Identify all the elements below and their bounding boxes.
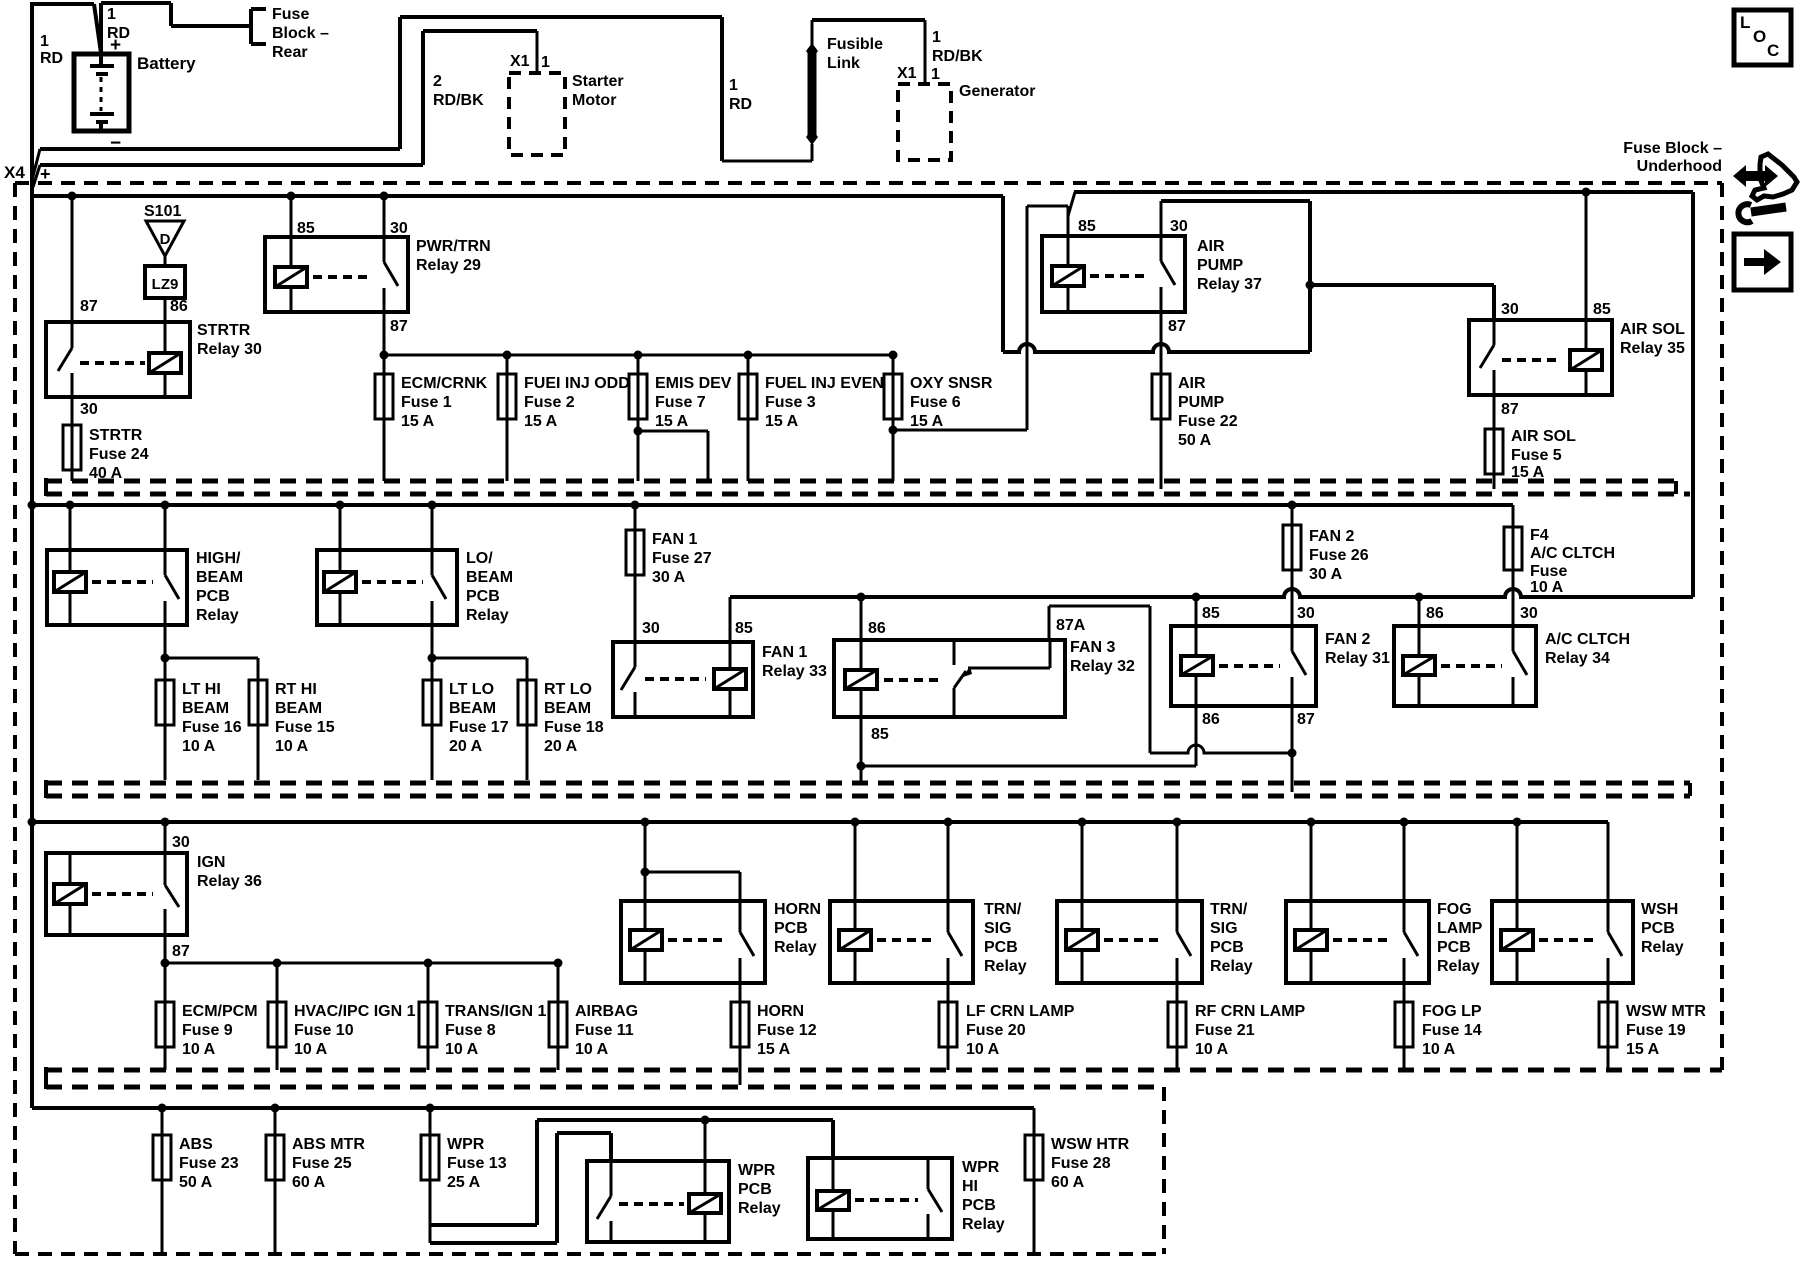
svg-text:87: 87 [1168,318,1186,335]
node row1 fuse bus junctions [380,351,898,360]
svg-text:D: D [160,231,171,248]
relay FAN 1 Relay 33 [613,597,827,717]
wire fusible link to generator [812,20,925,84]
wire relay37 to relay35 [1306,281,1495,321]
svg-text:Fuse 2: Fuse 2 [524,394,575,411]
svg-text:Fuse 22: Fuse 22 [1178,413,1238,430]
fuse WPR Fuse 13 [421,1108,507,1243]
svg-text:F4: F4 [1530,527,1549,544]
wire FAN3 87A to FAN2 87 [1049,606,1297,758]
fuse STRTR Fuse 24 [63,397,149,482]
svg-text:Fuse 6: Fuse 6 [910,394,961,411]
wire high beam relay output [161,625,259,680]
svg-text:Relay: Relay [1210,958,1253,975]
svg-text:RD/BK: RD/BK [433,92,484,109]
svg-text:85: 85 [297,220,315,237]
svg-text:30 A: 30 A [1309,566,1343,583]
svg-text:FOG: FOG [1437,901,1472,918]
wire WPR fuse to relays upper [430,1116,833,1226]
svg-text:LO/: LO/ [466,550,493,567]
svg-text:86: 86 [1202,711,1220,728]
svg-text:Relay 32: Relay 32 [1070,658,1135,675]
svg-text:50 A: 50 A [1178,432,1212,449]
svg-text:Relay 29: Relay 29 [416,257,481,274]
node bus row3 junctions [28,818,1522,827]
svg-text:PCB: PCB [466,588,500,605]
node X4 crow foot [4,149,51,187]
fuse ECM/PCM Fuse 9 [156,1002,258,1070]
svg-text:FAN 2: FAN 2 [1309,528,1354,545]
fuse ABS MTR Fuse 25 [266,1108,365,1254]
svg-text:WSW MTR: WSW MTR [1626,1003,1706,1020]
relay AIR PUMP Relay 37 [1042,192,1262,374]
svg-text:10 A: 10 A [182,1041,216,1058]
svg-text:Link: Link [827,55,860,72]
fuse LT LO BEAM Fuse 17 [423,680,509,780]
svg-text:ABS MTR: ABS MTR [292,1136,365,1153]
wire battery positive to left bus [30,4,101,53]
fuse ECM/CRNK Fuse 1 [375,374,488,481]
svg-text:HIGH/: HIGH/ [196,550,241,567]
svg-text:Relay: Relay [962,1216,1005,1233]
svg-text:60 A: 60 A [1051,1174,1085,1191]
svg-text:HORN: HORN [757,1003,804,1020]
svg-text:60 A: 60 A [292,1174,326,1191]
svg-text:30: 30 [1501,301,1519,318]
relay STRTR Relay 30 [46,196,262,418]
svg-text:RF CRN LAMP: RF CRN LAMP [1195,1003,1306,1020]
node bus row4 junctions [158,1104,435,1113]
wire bus row1 [32,194,1003,198]
fuse FAN 2 Fuse 26 [1283,505,1369,626]
svg-text:Fuse 13: Fuse 13 [447,1155,507,1172]
svg-text:Fuse 17: Fuse 17 [449,719,509,736]
svg-text:86: 86 [1426,605,1444,622]
svg-text:1: 1 [729,77,738,94]
svg-text:87: 87 [80,298,98,315]
label 2 RD/BK [433,73,484,109]
svg-text:Fuse: Fuse [272,6,309,23]
svg-text:86: 86 [170,298,188,315]
svg-text:LT HI: LT HI [182,681,221,698]
svg-text:10 A: 10 A [1195,1041,1229,1058]
svg-text:Fuse 15: Fuse 15 [275,719,335,736]
svg-text:10 A: 10 A [182,738,216,755]
svg-text:1: 1 [932,29,941,46]
relay FOG LAMP PCB Relay [1286,822,1483,1002]
svg-text:Fusible: Fusible [827,36,883,53]
svg-text:10 A: 10 A [1530,579,1564,596]
svg-text:FOG LP: FOG LP [1422,1003,1482,1020]
wire IGN output bus [161,959,563,968]
svg-text:OXY SNSR: OXY SNSR [910,375,993,392]
svg-text:HORN: HORN [774,901,821,918]
svg-text:PCB: PCB [962,1197,996,1214]
svg-text:Block –: Block – [272,25,329,42]
svg-text:1: 1 [931,66,940,83]
svg-text:87: 87 [1501,401,1519,418]
svg-text:Generator: Generator [959,83,1035,100]
wire B to starter motor [40,31,537,165]
svg-text:A/C CLTCH: A/C CLTCH [1530,545,1615,562]
svg-text:AIR: AIR [1197,238,1225,255]
svg-text:10 A: 10 A [1422,1041,1456,1058]
fuse FUEI INJ ODD Fuse 2 [498,355,630,481]
svg-text:Fuse 11: Fuse 11 [575,1022,634,1039]
svg-text:1: 1 [107,6,116,23]
svg-text:IGN: IGN [197,854,225,871]
svg-text:ECM/PCM: ECM/PCM [182,1003,258,1020]
svg-text:Relay: Relay [196,607,239,624]
svg-text:87: 87 [1297,711,1315,728]
svg-text:Underhood: Underhood [1637,158,1722,175]
svg-text:FUEL INJ EVEN: FUEL INJ EVEN [765,375,884,392]
relay WPR PCB Relay [587,1120,781,1242]
fuse AIR PUMP Fuse 22 [1152,374,1238,489]
wire row2 relay feed line [730,589,1693,602]
svg-text:HI: HI [962,1178,978,1195]
svg-text:Fuse 20: Fuse 20 [966,1022,1026,1039]
svg-text:WSW HTR: WSW HTR [1051,1136,1130,1153]
svg-text:TRN/: TRN/ [1210,901,1248,918]
svg-text:RD/BK: RD/BK [932,48,983,65]
wire OXY SNSR to relay 37 coil [889,206,1069,435]
svg-text:85: 85 [1078,218,1096,235]
svg-text:RT HI: RT HI [275,681,317,698]
svg-text:RD: RD [107,25,130,42]
svg-text:Fuse 23: Fuse 23 [179,1155,239,1172]
relay HIGH/BEAM PCB Relay [47,505,243,625]
svg-text:RD: RD [40,50,63,67]
svg-text:Fuse 19: Fuse 19 [1626,1022,1686,1039]
svg-text:Fuse 25: Fuse 25 [292,1155,352,1172]
fuse EMIS DEV Fuse 7 [629,355,732,481]
svg-text:BEAM: BEAM [196,569,243,586]
svg-text:30: 30 [642,620,660,637]
relay IGN Relay 36 [46,822,262,1002]
svg-text:85: 85 [1202,605,1220,622]
node bus row2 junctions [28,501,1297,510]
svg-text:FAN 1: FAN 1 [762,644,807,661]
svg-text:Fuse 12: Fuse 12 [757,1022,817,1039]
inner dashed separators [46,481,1722,1087]
fuse F4 A/C CLTCH Fuse [1504,505,1615,626]
svg-text:Relay 35: Relay 35 [1620,340,1685,357]
wire left main vertical [30,4,34,1108]
relay AIR SOL Relay 35 [1469,192,1685,429]
svg-text:30: 30 [1520,605,1538,622]
splice S101 [144,203,184,256]
svg-text:Fuse 18: Fuse 18 [544,719,604,736]
label 1 RD battery [107,6,130,42]
svg-text:STRTR: STRTR [197,322,251,339]
fuse AIRBAG Fuse 11 [549,963,638,1070]
fuse FOG LP Fuse 14 [1395,1002,1482,1070]
svg-text:C: C [1767,41,1779,60]
svg-text:ABS: ABS [179,1136,213,1153]
svg-text:X4: X4 [4,163,25,182]
svg-text:Fuse 28: Fuse 28 [1051,1155,1111,1172]
wire bus row1 right feed loop [1003,196,1310,352]
svg-text:RT LO: RT LO [544,681,592,698]
svg-text:30: 30 [1170,218,1188,235]
svg-text:20 A: 20 A [544,738,578,755]
fuse LF CRN LAMP Fuse 20 [939,1002,1075,1070]
svg-text:WPR: WPR [447,1136,485,1153]
svg-text:PCB: PCB [196,588,230,605]
svg-text:FUEI INJ ODD: FUEI INJ ODD [524,375,630,392]
connector X1 generator [897,65,1035,160]
svg-text:TRANS/IGN 1: TRANS/IGN 1 [445,1003,546,1020]
label 1 RD left [40,33,63,67]
svg-text:BEAM: BEAM [275,700,322,717]
svg-text:Fuse 1: Fuse 1 [401,394,452,411]
svg-text:15 A: 15 A [401,413,435,430]
svg-text:15 A: 15 A [1626,1041,1660,1058]
relay A/C CLTCH Relay 34 [1394,597,1630,706]
svg-text:WPR: WPR [962,1159,1000,1176]
wire bus row1 upper right [1074,188,1693,598]
wire bus row2 [32,503,1513,507]
svg-text:Fuse Block –: Fuse Block – [1623,140,1722,157]
svg-text:30: 30 [1297,605,1315,622]
svg-text:40 A: 40 A [89,465,123,482]
relay FAN 2 Relay 31 [1171,597,1390,792]
svg-text:85: 85 [735,620,753,637]
svg-text:Relay: Relay [774,939,817,956]
svg-text:Relay 37: Relay 37 [1197,276,1262,293]
svg-text:87: 87 [172,943,190,960]
svg-text:15 A: 15 A [655,413,689,430]
svg-text:25 A: 25 A [447,1174,481,1191]
svg-text:PCB: PCB [1641,920,1675,937]
svg-text:BEAM: BEAM [182,700,229,717]
wire FAN3 85 to FAN2 86 [857,706,1197,782]
wire bus row4 [32,1106,1034,1110]
svg-text:10 A: 10 A [275,738,309,755]
relay FAN 3 Relay 32 [834,597,1135,717]
wire A to starter motor branch [40,17,812,161]
svg-text:30 A: 30 A [652,569,686,586]
svg-text:10 A: 10 A [575,1041,609,1058]
svg-text:Fuse 26: Fuse 26 [1309,547,1369,564]
svg-text:87: 87 [390,318,408,335]
svg-text:FAN 3: FAN 3 [1070,639,1115,656]
svg-text:PCB: PCB [984,939,1018,956]
battery B1 [74,35,196,154]
fuse RT HI BEAM Fuse 15 [249,680,335,780]
svg-text:30: 30 [80,401,98,418]
svg-text:SIG: SIG [984,920,1012,937]
svg-text:FAN 2: FAN 2 [1325,631,1370,648]
label 1 RD/BK generator [932,29,983,65]
svg-text:Fuse 8: Fuse 8 [445,1022,496,1039]
svg-text:BEAM: BEAM [544,700,591,717]
svg-text:A/C CLTCH: A/C CLTCH [1545,631,1630,648]
icon double arrow hand [1733,154,1797,200]
icon arrow box [1734,234,1791,290]
fuse WSW MTR Fuse 19 [1599,1002,1706,1070]
svg-text:Relay: Relay [738,1200,781,1217]
svg-text:Relay: Relay [1641,939,1684,956]
svg-text:1: 1 [40,33,49,50]
svg-text:BEAM: BEAM [449,700,496,717]
fuse HORN Fuse 12 [731,1002,817,1085]
fuse ABS Fuse 23 [153,1108,239,1254]
svg-text:Relay: Relay [466,607,509,624]
relay HORN PCB Relay [621,822,821,1002]
svg-text:PUMP: PUMP [1178,394,1225,411]
svg-text:PCB: PCB [1210,939,1244,956]
relay TRN/SIG PCB Relay 2 [1057,822,1253,1002]
fuse block underhood outer dashed border [15,183,1722,1254]
svg-text:30: 30 [172,834,190,851]
fuse AIR SOL Fuse 5 [1485,428,1576,489]
svg-text:Fuse 9: Fuse 9 [182,1022,233,1039]
svg-text:Battery: Battery [137,54,196,73]
svg-text:BEAM: BEAM [466,569,513,586]
svg-text:AIR: AIR [1178,375,1206,392]
relay WPR HI PCB Relay [808,1158,1005,1239]
icon wrench [1738,204,1786,222]
fuse RF CRN LAMP Fuse 21 [1168,1002,1306,1070]
svg-text:85: 85 [871,726,889,743]
svg-text:Fuse 16: Fuse 16 [182,719,242,736]
svg-text:10 A: 10 A [445,1041,479,1058]
fuse FAN 1 Fuse 27 [626,505,712,642]
svg-text:15 A: 15 A [757,1041,791,1058]
svg-text:Fuse 5: Fuse 5 [1511,447,1562,464]
svg-text:2: 2 [433,73,442,90]
svg-text:Starter: Starter [572,73,624,90]
relay LO/BEAM PCB Relay [317,505,513,625]
fuse WSW HTR Fuse 28 [1025,1108,1130,1254]
svg-text:Fuse 7: Fuse 7 [655,394,706,411]
fusible link [806,20,883,161]
svg-text:PCB: PCB [738,1181,772,1198]
svg-text:Relay 36: Relay 36 [197,873,262,890]
svg-text:X1: X1 [897,65,917,82]
svg-text:FAN 1: FAN 1 [652,531,697,548]
svg-text:EMIS DEV: EMIS DEV [655,375,732,392]
svg-text:ECM/CRNK: ECM/CRNK [401,375,488,392]
svg-text:10 A: 10 A [966,1041,1000,1058]
svg-text:PWR/TRN: PWR/TRN [416,238,491,255]
svg-text:50 A: 50 A [179,1174,213,1191]
svg-text:Relay 34: Relay 34 [1545,650,1610,667]
wire bus row3 [32,820,1608,824]
svg-text:Relay: Relay [1437,958,1480,975]
svg-text:15 A: 15 A [1511,464,1545,481]
svg-text:LT LO: LT LO [449,681,494,698]
svg-text:Fuse 3: Fuse 3 [765,394,816,411]
fuse FUEL INJ EVEN Fuse 3 [739,355,884,481]
fuse HVAC/IPC IGN 1 Fuse 10 [268,963,416,1070]
svg-text:Relay 31: Relay 31 [1325,650,1390,667]
relay WSH PCB Relay [1492,822,1684,1002]
wire WPR fuse to relay lower [430,1133,611,1243]
svg-text:HVAC/IPC IGN 1: HVAC/IPC IGN 1 [294,1003,416,1020]
svg-text:15 A: 15 A [910,413,944,430]
svg-text:86: 86 [868,620,886,637]
svg-text:Fuse 14: Fuse 14 [1422,1022,1482,1039]
svg-text:15 A: 15 A [524,413,558,430]
svg-text:SIG: SIG [1210,920,1238,937]
fuse LT HI BEAM Fuse 16 [156,680,242,780]
svg-text:Relay 33: Relay 33 [762,663,827,680]
svg-text:LZ9: LZ9 [152,276,179,293]
label Fuse Block Underhood [1623,140,1722,175]
svg-text:O: O [1753,27,1766,46]
svg-text:X1: X1 [510,53,530,70]
fuse OXY SNSR Fuse 6 [884,355,993,481]
node bus1 junctions [68,192,389,201]
wire row1 fuse bus [384,354,893,357]
svg-text:85: 85 [1593,301,1611,318]
connector Fuse Block Rear [251,6,329,61]
svg-text:PUMP: PUMP [1197,257,1244,274]
svg-text:10 A: 10 A [294,1041,328,1058]
wire battery positive to fuse block rear [101,3,251,54]
relay TRN/SIG PCB Relay 1 [830,822,1027,1002]
svg-text:LAMP: LAMP [1437,920,1483,937]
svg-text:AIR SOL: AIR SOL [1620,321,1685,338]
svg-text:87A: 87A [1056,617,1086,634]
svg-text:L: L [1740,13,1750,32]
svg-text:Fuse 27: Fuse 27 [652,550,712,567]
svg-text:Fuse 24: Fuse 24 [89,446,149,463]
icon LOC box [1734,10,1791,65]
svg-text:20 A: 20 A [449,738,483,755]
svg-text:STRTR: STRTR [89,427,143,444]
svg-text:30: 30 [390,220,408,237]
svg-text:LF CRN LAMP: LF CRN LAMP [966,1003,1075,1020]
svg-text:S101: S101 [144,203,181,220]
connector X1 starter motor [509,53,624,155]
svg-text:Fuse 21: Fuse 21 [1195,1022,1255,1039]
svg-text:PCB: PCB [774,920,808,937]
svg-text:Fuse 10: Fuse 10 [294,1022,354,1039]
fuse TRANS/IGN 1 Fuse 8 [419,963,546,1070]
relay PWR/TRN Relay 29 [265,196,491,374]
svg-text:Relay: Relay [984,958,1027,975]
label 1 RD right [729,77,752,113]
svg-text:Fuse: Fuse [1530,563,1567,580]
svg-text:15 A: 15 A [765,413,799,430]
fuse RT LO BEAM Fuse 18 [518,680,604,780]
svg-text:AIR SOL: AIR SOL [1511,428,1576,445]
svg-text:Rear: Rear [272,44,308,61]
svg-text:Relay 30: Relay 30 [197,341,262,358]
wire lo beam relay output [428,625,528,680]
node LZ9 [145,253,185,322]
svg-text:PCB: PCB [1437,939,1471,956]
svg-text:RD: RD [729,96,752,113]
svg-text:1: 1 [541,54,550,71]
svg-text:Motor: Motor [572,92,616,109]
svg-text:WSH: WSH [1641,901,1678,918]
svg-text:WPR: WPR [738,1162,776,1179]
svg-text:TRN/: TRN/ [984,901,1022,918]
svg-text:AIRBAG: AIRBAG [575,1003,638,1020]
